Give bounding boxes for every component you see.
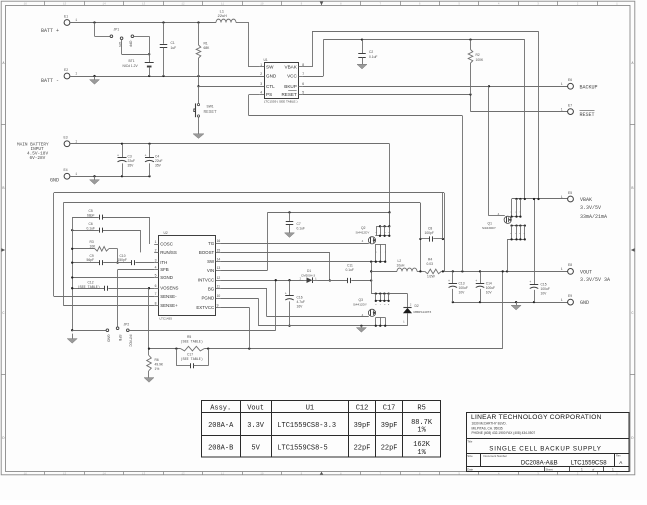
svg-text:R6: R6 [155, 358, 159, 362]
svg-text:C14: C14 [486, 281, 492, 285]
svg-text:BT1: BT1 [129, 59, 135, 63]
svg-text:+: + [117, 154, 119, 158]
svg-text:12: 12 [181, 473, 185, 476]
svg-text:100pF: 100pF [425, 231, 434, 235]
svg-text:10: 10 [260, 2, 264, 5]
svg-text:1: 1 [75, 172, 77, 176]
svg-text:C3: C3 [128, 154, 132, 158]
svg-text:U2: U2 [164, 231, 168, 235]
svg-text:C: C [631, 312, 633, 316]
svg-text:LTC1559CS8: LTC1559CS8 [571, 460, 608, 466]
svg-text:(SEE TABLE): (SEE TABLE) [78, 285, 100, 290]
svg-text:208A-A: 208A-A [208, 422, 234, 430]
svg-text:+: + [475, 280, 477, 284]
svg-text:3.3V: 3.3V [247, 422, 265, 430]
svg-text:88.7K: 88.7K [411, 419, 433, 427]
svg-text:INTVCC: INTVCC [198, 278, 214, 283]
svg-text:U1: U1 [264, 58, 268, 62]
svg-text:39pF: 39pF [381, 422, 398, 430]
svg-text:BG: BG [208, 286, 215, 291]
svg-text:4: 4 [260, 90, 262, 94]
svg-text:C9: C9 [90, 254, 94, 258]
svg-text:VBAK: VBAK [580, 197, 592, 203]
svg-text:L1: L1 [220, 10, 225, 14]
svg-text:2: 2 [260, 72, 262, 76]
svg-text:D: D [2, 437, 4, 441]
svg-text:Sheet: Sheet [546, 467, 554, 471]
svg-text:R4: R4 [428, 258, 432, 262]
svg-text:100K: 100K [476, 58, 485, 62]
svg-text:R1: R1 [204, 42, 208, 46]
svg-text:Si4412DY: Si4412DY [356, 231, 370, 235]
svg-text:Si9430DY: Si9430DY [482, 226, 496, 230]
svg-text:Rev: Rev [616, 454, 621, 458]
svg-text:SFB: SFB [118, 335, 122, 342]
svg-text:13: 13 [217, 266, 221, 270]
svg-text:0.1uF: 0.1uF [346, 268, 354, 272]
svg-text:10K: 10K [90, 244, 97, 248]
svg-text:13: 13 [142, 473, 146, 476]
svg-text:0.1uF: 0.1uF [87, 227, 95, 231]
svg-text:SINGLE CELL BACKUP SUPPLY: SINGLE CELL BACKUP SUPPLY [489, 445, 601, 452]
svg-text:11: 11 [221, 2, 225, 5]
svg-text:C2: C2 [369, 50, 373, 54]
svg-text:15: 15 [63, 473, 67, 476]
svg-text:VCC: VCC [287, 74, 297, 79]
svg-text:1: 1 [561, 195, 563, 199]
svg-text:1/2W: 1/2W [427, 275, 436, 279]
svg-text:16V: 16V [297, 305, 304, 309]
svg-text:U1: U1 [306, 405, 314, 413]
svg-text:1: 1 [155, 240, 157, 244]
svg-text:10uH: 10uH [397, 263, 406, 267]
svg-text:4: 4 [362, 314, 364, 317]
svg-text:VOUT: VOUT [580, 269, 592, 275]
svg-text:C5: C5 [89, 209, 93, 213]
svg-text:22uF: 22uF [128, 159, 136, 163]
svg-text:SFB: SFB [160, 267, 169, 272]
svg-text:GND: GND [106, 335, 110, 343]
svg-text:C11: C11 [347, 264, 353, 268]
svg-text:1%: 1% [417, 427, 426, 435]
svg-text:VOSENS: VOSENS [160, 286, 178, 291]
svg-text:E2: E2 [64, 68, 68, 72]
svg-text:6: 6 [302, 82, 304, 86]
svg-text:R5: R5 [417, 405, 425, 413]
svg-text:1: 1 [75, 72, 77, 76]
svg-text:33mA/21mA: 33mA/21mA [580, 214, 607, 220]
svg-text:10V: 10V [541, 291, 548, 295]
svg-text:162K: 162K [413, 441, 431, 449]
svg-text:3: 3 [260, 82, 262, 86]
svg-text:1%: 1% [155, 367, 160, 371]
svg-text:10: 10 [217, 294, 221, 298]
svg-text:Si4412DY: Si4412DY [353, 303, 367, 307]
svg-text:12: 12 [217, 276, 221, 280]
svg-text:C7: C7 [297, 222, 301, 226]
svg-text:3.3V/5V 3A: 3.3V/5V 3A [580, 277, 610, 283]
svg-text:0.1uF: 0.1uF [369, 55, 377, 59]
svg-text:R5: R5 [187, 335, 191, 339]
svg-text:C6: C6 [89, 222, 93, 226]
svg-text:39pF: 39pF [354, 422, 371, 430]
svg-text:Q2: Q2 [361, 226, 366, 230]
svg-text:Assy.: Assy. [210, 405, 231, 413]
svg-text:NICd 1.2V: NICd 1.2V [123, 64, 139, 68]
svg-text:GND: GND [266, 74, 277, 79]
svg-text:5: 5 [155, 273, 157, 277]
svg-text:TG: TG [208, 241, 215, 246]
svg-text:7: 7 [302, 72, 304, 76]
svg-text:GND: GND [50, 178, 59, 184]
svg-text:10: 10 [260, 473, 264, 476]
svg-text:1: 1 [260, 63, 262, 67]
svg-text:4: 4 [155, 266, 157, 270]
svg-text:Q3: Q3 [359, 298, 364, 302]
svg-text:100uF: 100uF [486, 286, 495, 290]
svg-text:OFF: OFF [129, 41, 133, 48]
svg-text:4: 4 [498, 213, 500, 216]
svg-text:15: 15 [217, 248, 221, 252]
svg-text:0.03: 0.03 [427, 262, 434, 266]
svg-text:7: 7 [155, 292, 157, 296]
svg-text:E6: E6 [568, 78, 572, 82]
svg-text:Document Number: Document Number [484, 454, 508, 458]
svg-text:12: 12 [181, 2, 185, 5]
svg-text:1: 1 [75, 139, 77, 143]
svg-text:3.3V/5V: 3.3V/5V [580, 205, 601, 211]
svg-text:DC208A-A&B: DC208A-A&B [521, 460, 558, 466]
svg-text:1: 1 [561, 107, 563, 111]
svg-text:56pF: 56pF [87, 258, 95, 262]
svg-text:SW: SW [266, 65, 274, 70]
svg-text:MBRS140T3: MBRS140T3 [414, 310, 432, 314]
svg-text:of: of [592, 468, 595, 472]
svg-text:INTVCC: INTVCC [129, 335, 133, 348]
svg-text:16: 16 [24, 473, 28, 476]
svg-text:C8: C8 [428, 226, 432, 230]
svg-text:+: + [529, 281, 531, 285]
svg-text:COSC: COSC [160, 242, 173, 247]
svg-text:Title: Title [467, 440, 473, 444]
svg-text:E5: E5 [568, 191, 572, 195]
svg-text:SENSE+: SENSE+ [160, 303, 178, 308]
svg-text:C17: C17 [383, 405, 396, 413]
svg-text:10V: 10V [486, 290, 493, 294]
svg-text:1: 1 [561, 267, 563, 271]
svg-text:L2: L2 [398, 259, 402, 263]
svg-text:15: 15 [63, 2, 67, 5]
svg-text:11: 11 [217, 285, 221, 289]
svg-text:16: 16 [24, 2, 28, 5]
svg-text:Size: Size [467, 454, 473, 458]
svg-text:E8: E8 [568, 263, 572, 267]
svg-text:VIN: VIN [207, 268, 214, 273]
svg-text:C16: C16 [297, 296, 303, 300]
svg-text:SENSE-: SENSE- [160, 294, 177, 299]
svg-text:BACKUP: BACKUP [580, 84, 598, 90]
svg-text:PS: PS [266, 92, 272, 97]
svg-text:RESET: RESET [281, 92, 297, 97]
svg-text:C17: C17 [187, 353, 193, 357]
svg-text:RUN/SS: RUN/SS [160, 250, 177, 255]
svg-text:JP1: JP1 [114, 28, 120, 32]
svg-text:BATT -: BATT - [41, 78, 59, 84]
svg-text:3: 3 [155, 259, 157, 263]
svg-text:35V: 35V [128, 163, 135, 167]
svg-text:10V: 10V [459, 290, 466, 294]
svg-text:208A-B: 208A-B [208, 444, 233, 452]
svg-text:35V: 35V [155, 163, 162, 167]
svg-text:1: 1 [581, 468, 583, 472]
svg-text:0.1uF: 0.1uF [297, 227, 305, 231]
svg-text:LINEAR TECHNOLOGY CORPORATION: LINEAR TECHNOLOGY CORPORATION [471, 414, 602, 421]
svg-text:C12: C12 [88, 280, 94, 284]
svg-text:C12: C12 [356, 405, 369, 413]
svg-text:C1: C1 [171, 41, 175, 45]
svg-text:CTL: CTL [266, 84, 275, 89]
svg-text:(SEE TABLE): (SEE TABLE) [181, 340, 203, 345]
svg-text:1%: 1% [417, 449, 426, 457]
svg-text:C15: C15 [541, 282, 547, 286]
svg-text:+: + [285, 293, 287, 297]
svg-text:68pF: 68pF [87, 214, 95, 218]
svg-text:2: 2 [155, 248, 157, 252]
svg-text:LTC1559CS8-5: LTC1559CS8-5 [277, 444, 327, 452]
svg-text:5: 5 [302, 90, 304, 94]
svg-text:SW1: SW1 [207, 104, 214, 108]
svg-text:49.9K: 49.9K [155, 363, 164, 367]
svg-text:PHONE (408) 432-1900 FAX (40: PHONE (408) 432-1900 FAX (408) 434-0507 [472, 431, 536, 435]
svg-text:+: + [448, 280, 450, 284]
svg-text:SGND: SGND [160, 275, 173, 280]
svg-text:Vout: Vout [247, 405, 264, 413]
svg-text:LTC1435: LTC1435 [160, 316, 173, 320]
svg-text:14: 14 [217, 258, 221, 262]
svg-text:ITH: ITH [160, 260, 167, 265]
svg-text:16: 16 [217, 239, 221, 243]
svg-text:68K: 68K [204, 46, 211, 50]
svg-text:JP2: JP2 [124, 323, 130, 327]
svg-text:LTC1559 ( SEE TABLE ): LTC1559 ( SEE TABLE ) [264, 100, 298, 104]
svg-text:13: 13 [142, 2, 146, 5]
svg-text:C4: C4 [155, 154, 159, 158]
svg-text:GND: GND [580, 300, 589, 306]
svg-text:+: + [145, 154, 147, 158]
svg-text:1: 1 [561, 298, 563, 302]
svg-text:D2: D2 [415, 304, 419, 308]
svg-text:(SEE TABLE): (SEE TABLE) [181, 357, 203, 362]
svg-text:8: 8 [155, 301, 157, 305]
svg-text:SW: SW [207, 259, 215, 264]
svg-text:1630 McCARTHY BLVD.: 1630 McCARTHY BLVD. [472, 422, 507, 426]
svg-text:CMDSH-3: CMDSH-3 [301, 273, 315, 277]
svg-text:1: 1 [561, 82, 563, 86]
svg-text:E3: E3 [64, 136, 68, 140]
svg-text:4: 4 [362, 240, 364, 243]
svg-text:5V: 5V [251, 444, 260, 452]
svg-text:100uF: 100uF [541, 287, 550, 291]
svg-text:4.7uF: 4.7uF [297, 300, 305, 304]
svg-text:100uF: 100uF [459, 286, 468, 290]
svg-text:1: 1 [612, 468, 614, 472]
svg-text:EXTVCC: EXTVCC [196, 305, 214, 310]
svg-text:D: D [631, 437, 633, 441]
svg-text:22pF: 22pF [354, 444, 371, 452]
svg-text:E1: E1 [64, 15, 68, 19]
svg-text:6V-28V: 6V-28V [30, 156, 46, 161]
svg-text:R2: R2 [476, 53, 480, 57]
svg-text:C: C [2, 312, 4, 316]
svg-text:BATT +: BATT + [41, 28, 59, 34]
svg-text:6: 6 [155, 284, 157, 288]
svg-text:E9: E9 [568, 294, 572, 298]
svg-text:PGND: PGND [202, 296, 215, 301]
svg-text:RESET: RESET [204, 110, 218, 115]
svg-text:14: 14 [103, 2, 107, 5]
svg-text:C10: C10 [120, 254, 126, 258]
svg-text:BOOST: BOOST [199, 250, 215, 255]
svg-text:Date: Date [467, 468, 473, 472]
svg-text:1: 1 [75, 18, 77, 22]
svg-text:11: 11 [221, 473, 225, 476]
svg-text:150pF: 150pF [118, 258, 127, 262]
svg-text:Q1: Q1 [488, 221, 493, 225]
svg-text:LTC1559CS8-3.3: LTC1559CS8-3.3 [277, 422, 336, 430]
svg-text:14: 14 [103, 473, 107, 476]
svg-text:RESET: RESET [580, 112, 595, 118]
svg-text:BKUP: BKUP [284, 84, 297, 89]
svg-text:E7: E7 [568, 103, 572, 107]
svg-text:22uF: 22uF [155, 159, 163, 163]
svg-text:22uH: 22uH [218, 15, 227, 19]
svg-text:C13: C13 [459, 281, 465, 285]
svg-text:MILPITAS, CA. 95035: MILPITAS, CA. 95035 [472, 426, 503, 430]
svg-text:D1: D1 [307, 269, 311, 273]
svg-text:1uF: 1uF [171, 46, 177, 50]
svg-text:E4: E4 [64, 168, 68, 172]
svg-text:VBAK: VBAK [285, 65, 298, 70]
svg-text:22pF: 22pF [381, 444, 398, 452]
svg-text:9: 9 [217, 303, 219, 307]
